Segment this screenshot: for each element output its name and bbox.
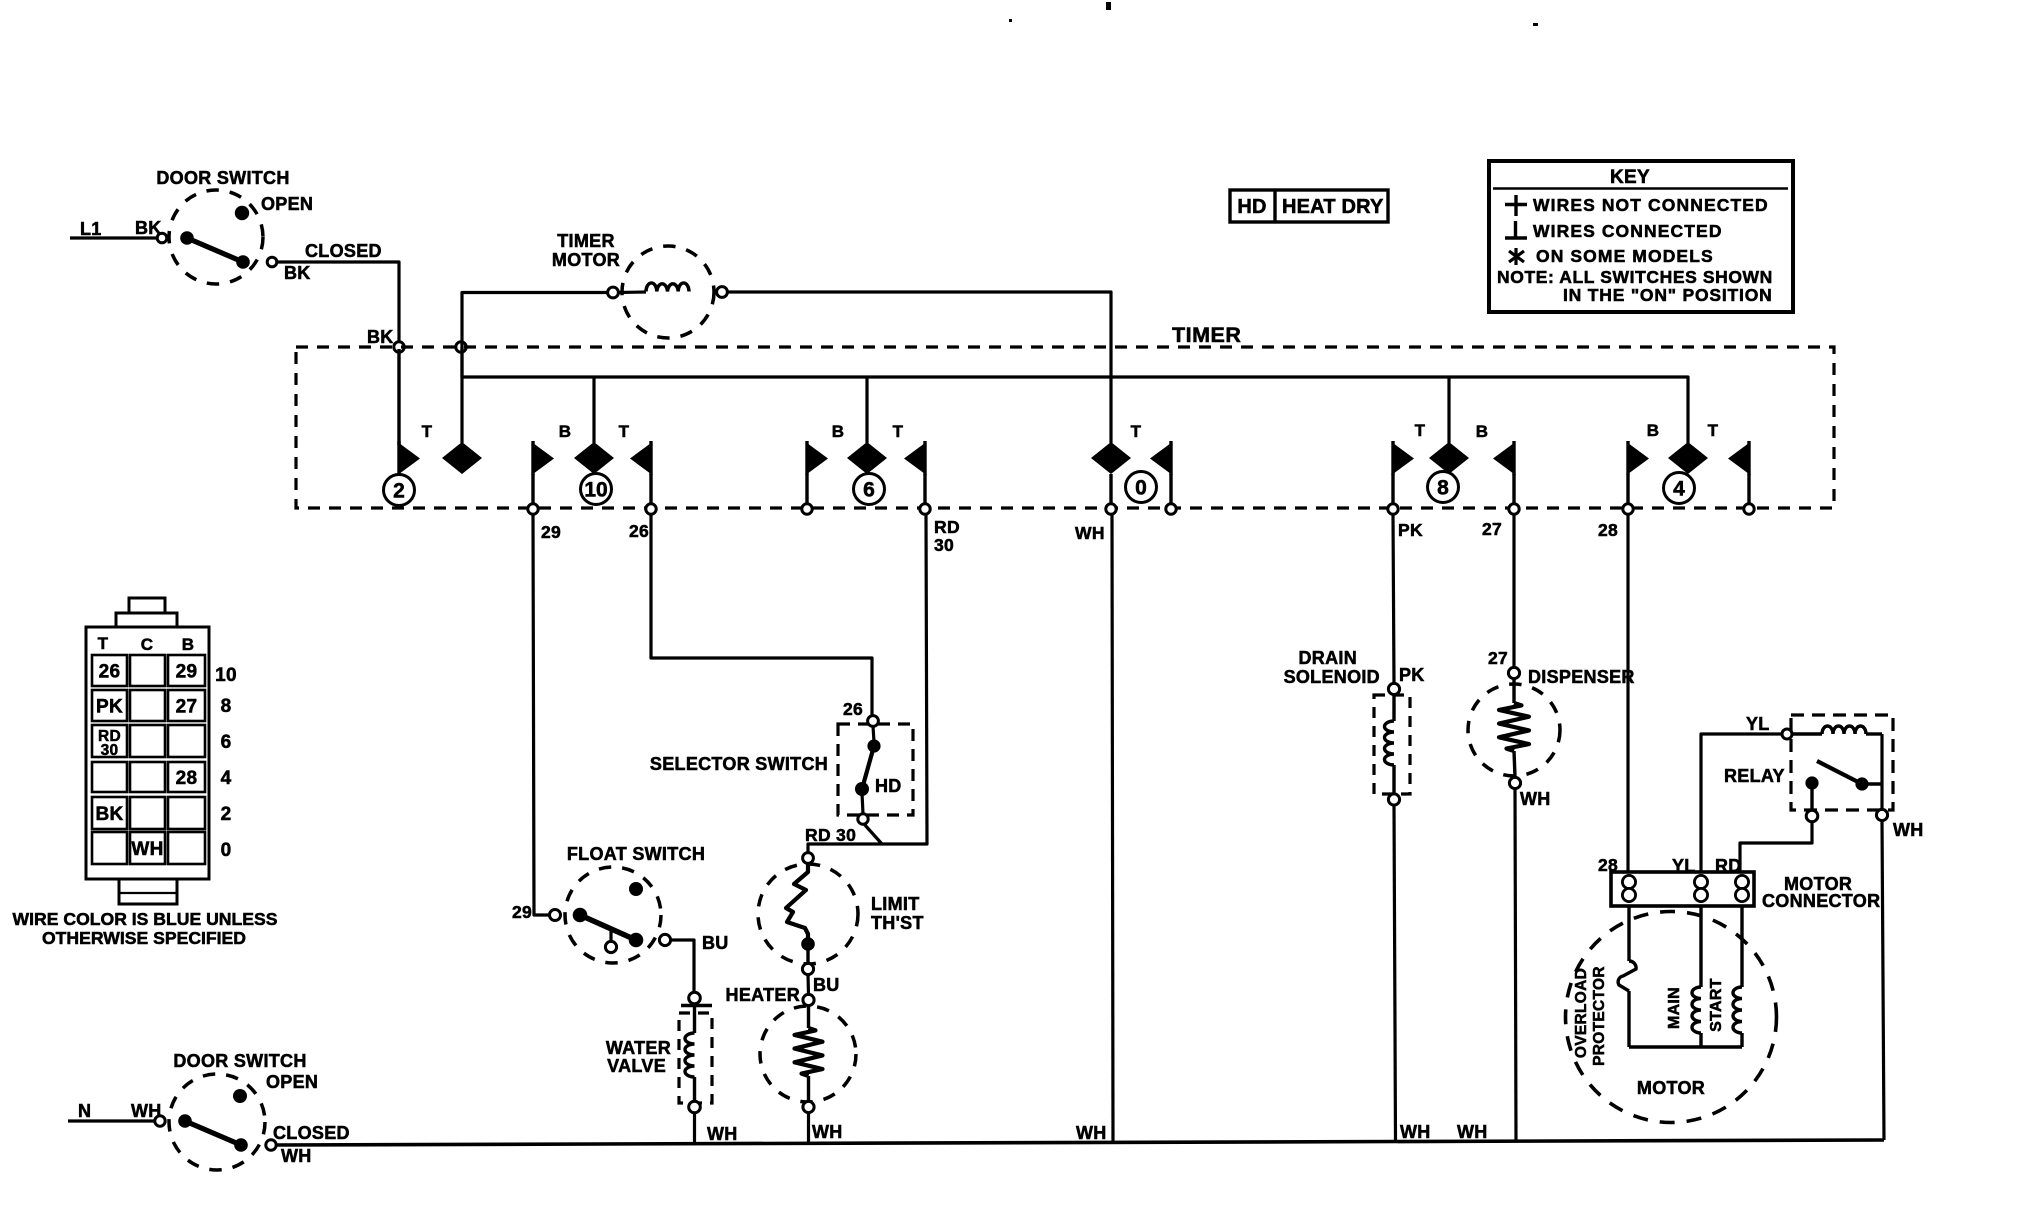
door switch (lower, N side) <box>78 1051 350 1170</box>
svg-text:DISPENSER: DISPENSER <box>1528 667 1635 687</box>
svg-text:28: 28 <box>176 768 198 789</box>
svg-text:B: B <box>1476 422 1489 441</box>
timer cam switch 2 <box>384 349 483 506</box>
svg-text:T: T <box>1131 422 1142 441</box>
svg-text:NOTE: ALL SWITCHES SHOWN: NOTE: ALL SWITCHES SHOWN <box>1497 267 1773 287</box>
heater element <box>726 985 856 1113</box>
svg-text:T: T <box>893 422 904 441</box>
svg-text:HD: HD <box>875 776 902 796</box>
svg-text:WATER: WATER <box>606 1038 671 1058</box>
svg-text:WH: WH <box>1457 1122 1488 1142</box>
timer cam switch 6 <box>807 422 925 508</box>
svg-text:27: 27 <box>1482 519 1502 539</box>
wire YL to relay coil <box>1701 734 1782 872</box>
svg-text:IN THE "ON" POSITION: IN THE "ON" POSITION <box>1563 285 1773 305</box>
svg-text:TIMER: TIMER <box>557 231 615 251</box>
svg-text:CLOSED: CLOSED <box>305 241 382 261</box>
svg-text:8: 8 <box>1437 477 1449 500</box>
svg-text:FLOAT SWITCH: FLOAT SWITCH <box>567 844 705 864</box>
svg-text:OTHERWISE SPECIFIED: OTHERWISE SPECIFIED <box>42 928 246 948</box>
wire BU float switch to water valve <box>670 940 694 993</box>
float switch <box>550 844 706 963</box>
svg-text:WH: WH <box>281 1146 312 1166</box>
svg-text:29: 29 <box>541 522 561 542</box>
svg-text:SELECTOR SWITCH: SELECTOR SWITCH <box>650 754 828 774</box>
svg-text:ON SOME MODELS: ON SOME MODELS <box>1536 246 1714 266</box>
svg-text:26: 26 <box>99 662 121 683</box>
svg-text:C: C <box>141 635 154 654</box>
svg-text:30: 30 <box>934 535 954 555</box>
svg-text:6: 6 <box>221 732 232 753</box>
svg-text:RELAY: RELAY <box>1724 766 1785 786</box>
wiring connector pinout chart <box>86 598 237 904</box>
svg-text:WH: WH <box>1520 789 1551 809</box>
svg-text:HD: HD <box>1237 196 1266 218</box>
svg-text:4: 4 <box>221 768 232 789</box>
door switch (upper, L1 side) <box>80 168 382 284</box>
svg-text:30: 30 <box>101 742 119 759</box>
wire L1 to door switch <box>70 236 157 239</box>
wire water valve WH to neutral bus <box>693 1113 696 1143</box>
svg-text:PK: PK <box>96 697 123 718</box>
svg-text:OVERLOAD: OVERLOAD <box>1573 968 1590 1058</box>
node 26 <box>646 504 656 514</box>
svg-text:MOTOR: MOTOR <box>552 250 620 270</box>
wire heater WH to neutral bus <box>807 1112 810 1142</box>
svg-text:HEATER: HEATER <box>726 985 800 1005</box>
wire 29 to float switch <box>533 514 551 915</box>
svg-text:START: START <box>1708 978 1725 1032</box>
svg-text:26: 26 <box>843 699 863 719</box>
svg-text:L1: L1 <box>80 219 102 239</box>
wire selector output to RD30 net <box>864 824 882 844</box>
node (cam 0 right contact) <box>1166 504 1176 514</box>
wire PK to drain solenoid <box>1393 514 1394 684</box>
neutral bus wire <box>276 1140 1884 1145</box>
wire drain solenoid WH to neutral bus <box>1394 805 1396 1141</box>
svg-text:SOLENOID: SOLENOID <box>1284 667 1380 687</box>
drain solenoid <box>1284 648 1425 805</box>
svg-text:YL: YL <box>1746 714 1770 734</box>
svg-text:BK: BK <box>284 263 311 283</box>
wire BK door switch to timer <box>277 262 399 342</box>
svg-text:27: 27 <box>1488 648 1508 668</box>
svg-text:WH: WH <box>1893 820 1924 840</box>
svg-text:6: 6 <box>863 479 875 502</box>
motor connector <box>1611 872 1880 911</box>
svg-text:WH: WH <box>707 1124 738 1144</box>
svg-text:28: 28 <box>1598 520 1618 540</box>
water valve solenoid <box>606 992 712 1113</box>
svg-text:OPEN: OPEN <box>266 1072 318 1092</box>
svg-text:WIRES CONNECTED: WIRES CONNECTED <box>1533 221 1723 241</box>
motor start winding <box>1708 906 1742 1047</box>
svg-text:29: 29 <box>512 902 532 922</box>
svg-text:27: 27 <box>176 697 198 718</box>
svg-text:B: B <box>832 422 845 441</box>
selector switch (heat dry) <box>650 716 913 825</box>
svg-text:RD: RD <box>934 517 960 537</box>
svg-text:4: 4 <box>1673 478 1685 501</box>
svg-text:WH: WH <box>131 839 163 860</box>
svg-text:VALVE: VALVE <box>607 1056 666 1076</box>
timer cam switch 0 <box>1091 422 1171 508</box>
svg-text:T: T <box>1415 421 1426 440</box>
svg-text:CONNECTOR: CONNECTOR <box>1762 891 1880 911</box>
relay <box>1724 715 1893 822</box>
svg-text:WH: WH <box>812 1122 843 1142</box>
svg-text:LIMIT: LIMIT <box>871 894 920 914</box>
wire 27 to dispenser <box>1512 514 1515 668</box>
svg-text:2: 2 <box>393 480 405 503</box>
svg-text:T: T <box>98 634 109 653</box>
svg-text:WIRES NOT CONNECTED: WIRES NOT CONNECTED <box>1533 195 1769 215</box>
svg-text:MOTOR: MOTOR <box>1637 1078 1705 1098</box>
node WH (cam 0) <box>1106 504 1116 514</box>
timer internal bus wire <box>462 347 1688 443</box>
svg-text:KEY: KEY <box>1610 167 1650 188</box>
node PK <box>1388 504 1398 514</box>
svg-text:B: B <box>1647 421 1660 440</box>
svg-text:BU: BU <box>813 975 840 995</box>
bus drop to cam 8 <box>1447 377 1450 443</box>
svg-text:BK: BK <box>95 804 123 825</box>
svg-text:T: T <box>619 422 630 441</box>
svg-text:WH: WH <box>1400 1122 1431 1142</box>
node 29 <box>528 504 538 514</box>
timer cam switch 4 <box>1628 421 1749 508</box>
svg-text:26: 26 <box>629 521 649 541</box>
svg-text:DOOR SWITCH: DOOR SWITCH <box>156 168 289 188</box>
key / legend box <box>1489 161 1793 312</box>
svg-text:BU: BU <box>702 933 729 953</box>
HD HEAT DRY legend badge <box>1230 190 1388 222</box>
svg-text:WIRE COLOR IS BLUE UNLESS: WIRE COLOR IS BLUE UNLESS <box>13 909 278 929</box>
svg-text:0: 0 <box>1135 477 1147 500</box>
bus drop to cam 6 <box>865 377 868 443</box>
wire N to door switch <box>68 1119 155 1122</box>
wire relay to WH <box>1880 734 1883 810</box>
node (cam 6 left contact) <box>802 504 812 514</box>
svg-text:RD 30: RD 30 <box>805 825 856 845</box>
scan speck artifacts <box>1106 2 1111 10</box>
node (cam 4 right contact) <box>1744 504 1754 514</box>
node 27 <box>1509 504 1519 514</box>
timer cam switch 8 <box>1393 421 1514 508</box>
timer motor M1 <box>552 231 727 338</box>
bus drop to cam 10 <box>592 377 595 443</box>
svg-text:T: T <box>1708 421 1719 440</box>
dispenser <box>1468 648 1635 809</box>
overload protector <box>1573 906 1636 1066</box>
wire 28 to motor connector <box>1626 514 1629 872</box>
svg-text:MAIN: MAIN <box>1666 987 1683 1029</box>
svg-text:2: 2 <box>221 804 232 825</box>
svg-text:PK: PK <box>1398 520 1423 540</box>
svg-text:DOOR SWITCH: DOOR SWITCH <box>173 1051 306 1071</box>
wire timer motor left to cam 2 <box>462 293 608 444</box>
svg-text:10: 10 <box>215 665 237 686</box>
svg-text:8: 8 <box>221 696 232 717</box>
wire dispenser WH to neutral bus <box>1515 789 1516 1140</box>
timer cam switch 10 <box>533 422 651 508</box>
svg-text:CLOSED: CLOSED <box>273 1123 350 1143</box>
wire WH from cam 0 to neutral bus <box>1112 514 1113 1141</box>
node RD 30 <box>920 504 930 514</box>
svg-text:TIMER: TIMER <box>1172 323 1241 347</box>
svg-text:OPEN: OPEN <box>261 194 313 214</box>
svg-text:WH: WH <box>1075 523 1105 543</box>
svg-text:B: B <box>182 635 195 654</box>
svg-text:PROTECTOR: PROTECTOR <box>1591 966 1608 1066</box>
wire 26 to selector switch <box>651 514 872 716</box>
svg-text:HEAT DRY: HEAT DRY <box>1282 196 1384 218</box>
wire timer motor right to cam 0 <box>727 292 1111 443</box>
node 28 <box>1623 504 1633 514</box>
svg-text:PK: PK <box>1399 665 1425 685</box>
svg-text:T: T <box>422 422 433 441</box>
svg-text:B: B <box>559 422 572 441</box>
motor winding common wire <box>1629 1045 1742 1048</box>
limit thermostat <box>758 853 924 975</box>
svg-text:WH: WH <box>1076 1123 1107 1143</box>
svg-text:10: 10 <box>584 479 607 502</box>
wire RD relay to motor connector <box>1740 822 1812 872</box>
wire BU thermostat to heater <box>806 974 810 995</box>
motor main winding <box>1666 906 1701 1047</box>
svg-text:N: N <box>78 1101 91 1121</box>
wire RD30 from timer to limit thermostat <box>808 514 927 853</box>
svg-text:TH'ST: TH'ST <box>871 913 924 933</box>
svg-text:0: 0 <box>221 840 232 861</box>
motor <box>1566 912 1777 1123</box>
svg-text:DRAIN: DRAIN <box>1299 648 1358 668</box>
svg-text:29: 29 <box>176 662 198 683</box>
wire relay WH down to bus <box>1882 820 1884 1140</box>
svg-text:BK: BK <box>367 327 394 347</box>
